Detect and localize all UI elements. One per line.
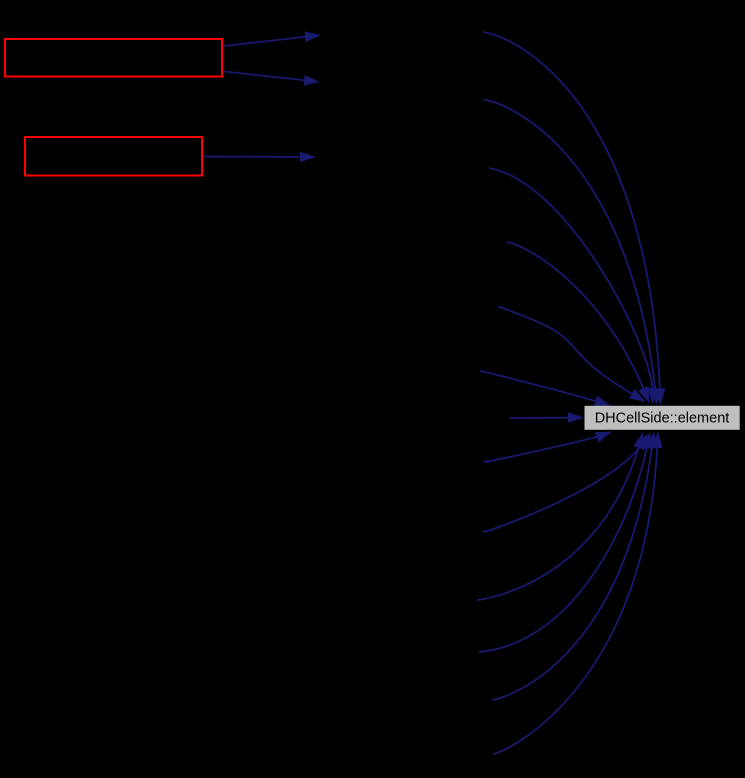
wire edge from caller 1 to DHCellSide::element <box>483 32 666 405</box>
node DHCellSide::element (gray box) <box>585 406 740 430</box>
wire edge from caller 13 to DHCellSide::element <box>493 432 663 755</box>
wire edge from caller 12 to DHCellSide::element <box>492 432 658 701</box>
node: red truncated box 1 (top-left) <box>5 39 222 77</box>
wire edge from caller 9 to DHCellSide::element <box>483 434 648 533</box>
wire edge from caller 6 to DHCellSide::element <box>480 371 611 406</box>
svg-text:DHCellSide::element: DHCellSide::element <box>595 410 730 426</box>
wire edge from caller 11 to DHCellSide::element <box>479 432 652 652</box>
wire edge from caller 7 to DHCellSide::element <box>510 412 584 423</box>
node: red truncated box 2 <box>25 137 202 176</box>
wire edge from caller 4 to DHCellSide::element <box>507 242 650 404</box>
wire edge from red node 2 to caller 3 <box>204 152 316 163</box>
wire edge from caller 2 to DHCellSide::element <box>484 100 661 406</box>
wire edge from caller 10 to DHCellSide::element <box>477 432 644 600</box>
wire edge from caller 8 to DHCellSide::element <box>484 432 612 463</box>
wire edge from caller 3 to DHCellSide::element <box>489 168 659 405</box>
wire edge from red node 1 to caller 2 <box>224 72 320 86</box>
wire edge from caller 5 to DHCellSide::element <box>498 307 646 403</box>
wire edge from red node 1 to caller 1 <box>224 32 321 47</box>
